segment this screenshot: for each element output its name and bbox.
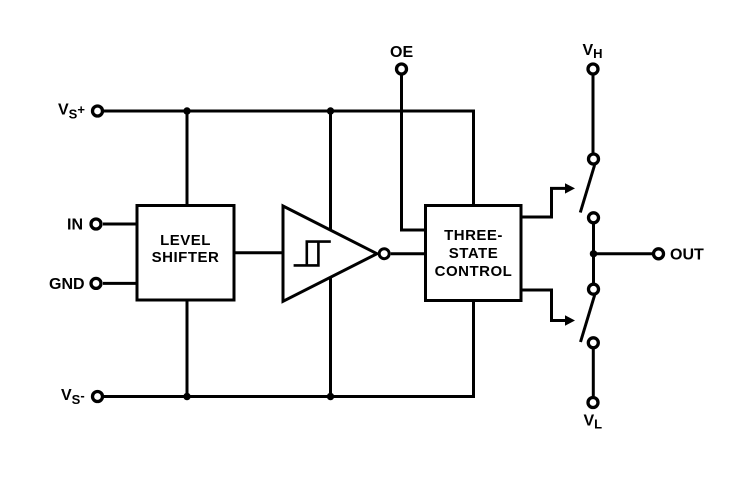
wire upper switch to lower switch [592,224,595,283]
terminal GND [91,278,101,288]
svg-text:OUT: OUT [670,247,704,264]
switch S1 top contact [589,154,599,164]
svg-text:VL: VL [584,413,603,432]
svg-text:OE: OE [390,44,413,61]
junction dot bottom rail / schmitt [327,393,334,400]
svg-text:VS+: VS+ [58,102,85,122]
wire GND to level shifter [103,282,137,285]
svg-text:VS-: VS- [61,387,85,407]
level shifter box U1 [137,206,234,301]
wire upper switch control [521,188,566,217]
svg-text:THREE-: THREE- [444,227,503,244]
terminal IN [91,219,101,229]
wire lower switch control [521,290,566,321]
wire level shifter top stub [186,111,189,206]
wire schmitt vertical (through triangle) [329,111,332,397]
svg-text:VH: VH [583,42,603,61]
junction dot OUT node [590,250,597,257]
arrowhead upper [565,183,575,193]
svg-text:SHIFTER: SHIFTER [152,249,220,266]
hysteresis symbol [294,242,331,266]
wire bubble to three-state control [391,252,426,255]
switch S2 blade [581,295,595,342]
schmitt trigger buffer [283,206,377,301]
svg-text:CONTROL: CONTROL [435,263,513,280]
junction dot bottom rail / level shifter [183,393,190,400]
wire OE to three-state control [402,75,427,230]
three-state control box U2 [426,206,522,301]
wire lower switch to VL [592,349,595,396]
wire IN to level shifter [103,223,137,226]
switch S1 bottom contact [589,213,599,223]
terminal VH [588,64,598,74]
terminal VL [588,398,598,408]
svg-text:LEVEL: LEVEL [160,232,211,249]
junction dot top rail / schmitt [327,107,334,114]
terminal OUT [654,249,664,259]
wire VH to upper switch [592,75,595,152]
inverter bubble [379,249,389,259]
terminal VS+ [93,106,103,116]
wire OUT [594,252,653,255]
wire level shifter bottom stub [186,300,189,397]
svg-text:IN: IN [67,217,83,234]
wire bottom rail VS- to three-state control bottom [104,301,474,397]
terminal VS- [93,392,103,402]
switch S1 blade [580,165,594,213]
junction dot top rail / level shifter [183,107,190,114]
svg-text:STATE: STATE [449,245,498,262]
switch S2 top contact [589,284,599,294]
svg-text:GND: GND [49,276,85,293]
wire top rail VS+ to three-state control top [104,111,474,206]
switch S2 bottom contact [588,338,598,348]
wire level shifter output to schmitt input [234,251,283,254]
arrowhead lower [565,315,575,325]
terminal OE [397,64,407,74]
